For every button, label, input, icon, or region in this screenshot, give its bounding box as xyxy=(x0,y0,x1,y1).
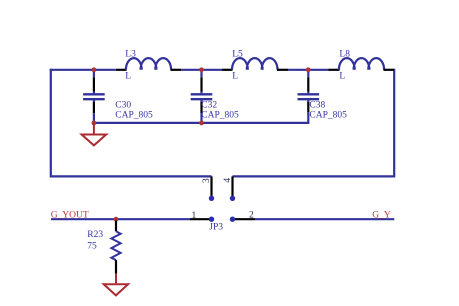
inductor L8 xyxy=(329,58,395,70)
wire top between L5 and L8 (through C38 node) xyxy=(288,69,328,71)
junction node at C32 top xyxy=(199,67,204,72)
svg-text:2: 2 xyxy=(249,210,254,220)
junction node at R23 top xyxy=(114,217,119,222)
wire top-left segment (corner to C30 node to L3 pin) xyxy=(50,69,116,71)
svg-text:L: L xyxy=(125,71,131,81)
svg-text:L8: L8 xyxy=(339,50,350,60)
pin 1 xyxy=(190,218,212,220)
svg-text:G_YOUT: G_YOUT xyxy=(51,210,89,220)
svg-text:75: 75 xyxy=(87,241,97,251)
svg-text:4: 4 xyxy=(223,178,233,183)
junction node at C30 bottom xyxy=(92,121,97,126)
svg-text:C32: C32 xyxy=(201,101,217,111)
wire G_Y net (JP3 pin 2 to right) xyxy=(255,218,394,220)
junction node at C38 top xyxy=(306,67,311,72)
wire G_YOUT net (left to JP3 pin 1) xyxy=(51,218,190,220)
junction node at C30 top xyxy=(92,67,97,72)
wire left vertical and middle-left horizontal to JP3 pin 3 xyxy=(51,69,212,177)
capacitor C32 xyxy=(191,70,213,123)
svg-text:3: 3 xyxy=(202,178,212,183)
svg-text:1: 1 xyxy=(192,211,197,221)
svg-text:L: L xyxy=(232,71,238,81)
svg-text:L: L xyxy=(339,71,345,81)
inductor L5 xyxy=(222,58,288,70)
svg-text:R23: R23 xyxy=(87,230,103,240)
pin 2 xyxy=(233,218,256,220)
svg-text:C30: C30 xyxy=(115,101,131,111)
svg-text:CAP_805: CAP_805 xyxy=(115,111,153,121)
svg-text:L5: L5 xyxy=(232,50,243,60)
junction node at C32 bottom xyxy=(199,121,204,126)
connector JP3 xyxy=(190,176,255,222)
svg-text:CAP_805: CAP_805 xyxy=(201,111,239,121)
ground under C30 xyxy=(82,124,107,146)
capacitor C30 xyxy=(83,70,105,123)
svg-text:JP3: JP3 xyxy=(209,223,223,233)
wire right vertical and middle-right horizontal to JP3 pin 4 xyxy=(233,69,395,177)
pin 4 xyxy=(231,176,233,198)
ground under R23 xyxy=(104,274,128,296)
svg-text:L3: L3 xyxy=(125,50,136,60)
svg-text:G_Y: G_Y xyxy=(372,210,391,220)
svg-text:C38: C38 xyxy=(309,101,325,111)
inductor L3 xyxy=(116,58,181,70)
svg-text:CAP_805: CAP_805 xyxy=(309,111,347,121)
capacitor C38 xyxy=(298,70,320,112)
resistor R23 xyxy=(111,221,120,274)
wire top between L3 and L5 (through C32 node) xyxy=(181,69,222,71)
wire capacitor bottom bus (C30 to C38) xyxy=(94,112,308,123)
pin 3 xyxy=(210,176,212,198)
